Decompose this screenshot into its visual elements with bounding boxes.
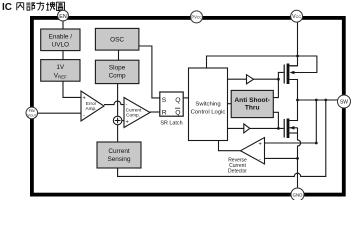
svg-text:+: + [259, 141, 262, 147]
svg-text:-: - [83, 113, 85, 119]
svg-text:Q: Q [175, 109, 180, 116]
svg-text:EN: EN [59, 14, 67, 20]
svg-text:Enable /: Enable / [49, 34, 73, 41]
svg-text:+: + [83, 96, 86, 102]
svg-text:Current: Current [108, 148, 130, 155]
svg-text:+: + [126, 120, 129, 126]
svg-text:S: S [162, 97, 167, 104]
svg-text:SR Latch: SR Latch [160, 120, 182, 126]
svg-text:VREF: VREF [54, 72, 67, 79]
svg-text:Sensing: Sensing [107, 156, 131, 163]
svg-text:GND: GND [293, 192, 303, 197]
svg-text:IC: IC [2, 2, 12, 13]
svg-text:VOUT: VOUT [27, 113, 36, 118]
svg-text:SW: SW [340, 100, 348, 106]
svg-text:OSC: OSC [110, 37, 124, 44]
svg-text:Q: Q [175, 97, 180, 104]
svg-text:PVCC: PVCC [191, 15, 202, 20]
svg-text:Thru: Thru [245, 104, 260, 111]
svg-text:Control Logic: Control Logic [191, 110, 226, 116]
svg-text:-: - [126, 102, 128, 108]
svg-text:Comp: Comp [109, 73, 126, 80]
svg-text:Detector: Detector [228, 169, 247, 175]
svg-text:Switching: Switching [195, 102, 220, 108]
svg-text:Anti Shoot-: Anti Shoot- [234, 97, 270, 104]
svg-text:Amp.: Amp. [86, 106, 97, 111]
svg-text:UVLO: UVLO [52, 41, 69, 48]
svg-text:R: R [162, 109, 167, 116]
svg-text:Comp.: Comp. [126, 113, 140, 118]
svg-text:Slope: Slope [109, 65, 126, 72]
svg-text:-: - [259, 157, 261, 163]
svg-text:1V: 1V [56, 64, 65, 71]
